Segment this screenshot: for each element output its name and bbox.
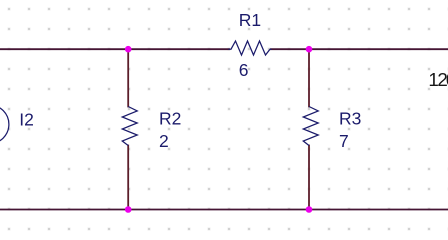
svg-text:R2: R2 — [159, 109, 181, 129]
svg-text:I2: I2 — [19, 110, 34, 130]
svg-text:R1: R1 — [239, 10, 261, 30]
svg-text:7: 7 — [339, 131, 349, 151]
svg-text:R3: R3 — [339, 109, 361, 129]
svg-text:12: 12 — [428, 69, 447, 90]
svg-text:6: 6 — [239, 60, 249, 80]
svg-text:2: 2 — [159, 131, 169, 151]
